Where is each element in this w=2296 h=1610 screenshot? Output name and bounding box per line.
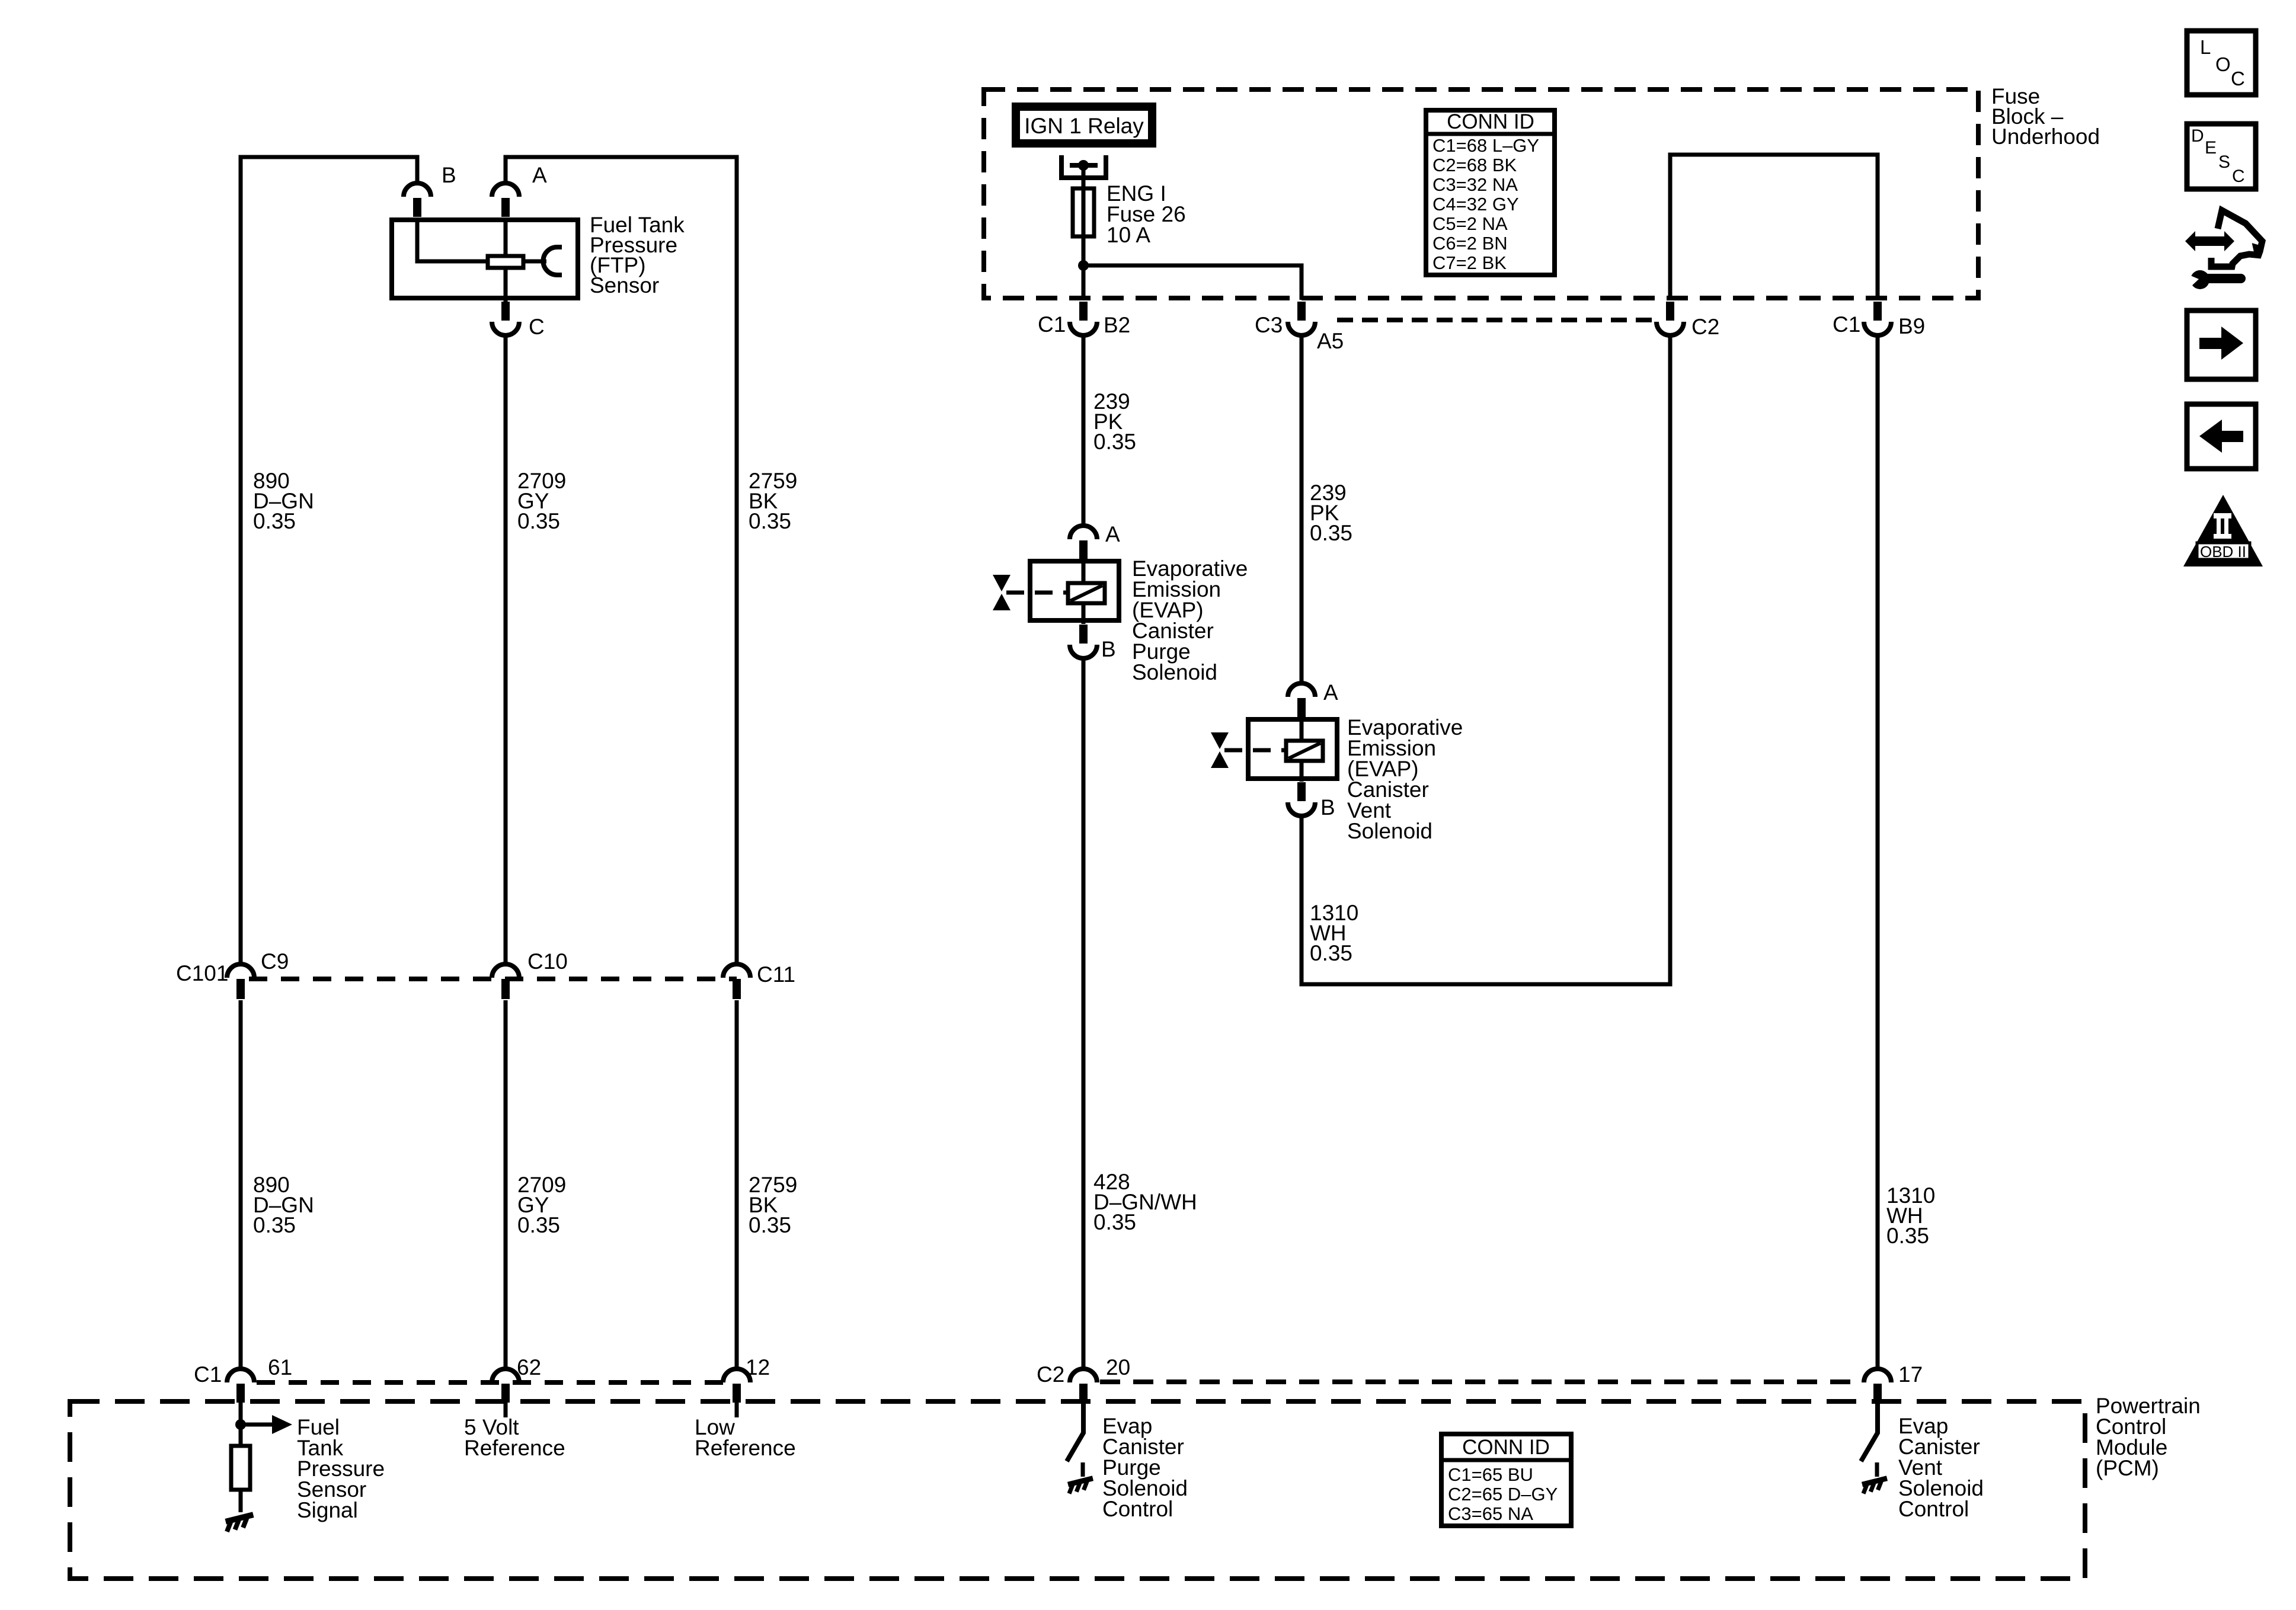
svg-text:(PCM): (PCM) (2096, 1456, 2159, 1480)
svg-text:Solenoid: Solenoid (1132, 660, 1217, 684)
svg-text:0.35: 0.35 (1310, 521, 1352, 545)
svg-text:S: S (2218, 152, 2230, 172)
ENG I Fuse 26 10 A fuse element (1073, 188, 1094, 236)
svg-text:B: B (442, 163, 456, 187)
vent solenoid pin B (1288, 782, 1315, 816)
svg-text:0.35: 0.35 (517, 509, 560, 533)
PCM terminal 20 (connector C2) (1070, 1369, 1097, 1403)
svg-text:61: 61 (268, 1355, 292, 1379)
ground stub (purge driver) (1081, 1462, 1085, 1477)
wire 1310 WH from vent solenoid pin B down across and up to fuse block C2 (1302, 335, 1670, 984)
vent solenoid coil wire (pin A side) (1300, 719, 1304, 741)
IGN 1 Relay box (1016, 107, 1152, 143)
connector C101 terminal C11 (723, 964, 750, 999)
svg-text:IGN 1 Relay: IGN 1 Relay (1024, 114, 1144, 138)
vent solenoid pin A (1288, 683, 1315, 718)
svg-text:C1=65 BU: C1=65 BU (1448, 1464, 1533, 1485)
purge solenoid valve symbol (993, 575, 1011, 591)
purge solenoid coil (1068, 583, 1105, 603)
svg-text:12: 12 (746, 1355, 770, 1379)
wire: 2759 BK from FTP pin A over and down to C101 C11 (506, 157, 737, 964)
component label: Evaporative Emission (EVAP) Canister Vent Solenoid (1347, 715, 1463, 843)
svg-text:10 A: 10 A (1107, 223, 1150, 247)
CONN ID table (fuse block) (1426, 110, 1555, 275)
wire: 2759 BK from C11 down to PCM terminal 12 (735, 1000, 739, 1369)
component label: Evaporative Emission (EVAP) Canister Purge Solenoid (1132, 556, 1248, 684)
vent solenoid coil wire (pin B side) (1300, 761, 1304, 782)
dashed jumper line from A5 row to C2 (1337, 318, 1655, 322)
svg-text:C3=32 NA: C3=32 NA (1432, 174, 1518, 195)
EVAP canister vent solenoid box (1248, 719, 1337, 779)
forward arrow icon box (2187, 311, 2256, 379)
FTP sensor internal wire from pin A down through resistor to pin C (504, 220, 508, 302)
Fuel Tank Pressure (FTP) Sensor box (392, 220, 578, 298)
signal arrow line (241, 1423, 272, 1427)
CONN ID table (PCM) (1441, 1434, 1571, 1526)
svg-text:0.35: 0.35 (1093, 1210, 1136, 1234)
svg-text:0.35: 0.35 (253, 1213, 296, 1237)
svg-text:C6=2 BN: C6=2 BN (1432, 233, 1508, 254)
fuse block terminal A5 (connector C3) (1288, 302, 1315, 335)
EVAP canister purge solenoid box (1030, 561, 1119, 620)
svg-text:C9: C9 (261, 949, 289, 974)
ground (PCM internal) (225, 1515, 256, 1532)
svg-text:0.35: 0.35 (1310, 941, 1352, 965)
PCM internal driver switch (purge) (1067, 1403, 1083, 1461)
svg-text:C4=32 GY: C4=32 GY (1432, 194, 1519, 215)
purge solenoid pin B (1070, 625, 1097, 658)
PCM terminal 62 (492, 1369, 519, 1403)
svg-text:0.35: 0.35 (517, 1213, 560, 1237)
wire label 2759 BK 0.35 (upper) (749, 469, 797, 533)
OBD II icon (2183, 495, 2263, 566)
svg-text:B2: B2 (1104, 313, 1130, 337)
wire: 2709 GY from FTP pin C down to C101 C10 (504, 335, 508, 964)
purge solenoid coil wire (pin B side) (1082, 603, 1086, 624)
relay contact bar (1070, 163, 1098, 168)
svg-text:C1: C1 (1833, 312, 1860, 337)
wire label 1310 WH 0.35 (right) (1886, 1183, 1935, 1248)
label: Evap Canister Vent Solenoid Control (1898, 1414, 1984, 1521)
svg-text:C2=68 BK: C2=68 BK (1432, 155, 1517, 175)
svg-text:CONN ID: CONN ID (1462, 1436, 1550, 1459)
wire label 890 D-GN 0.35 (upper) (253, 469, 314, 533)
svg-text:D: D (2191, 126, 2204, 146)
PCM terminal 12 (723, 1369, 750, 1403)
connector pin A of FTP sensor (492, 183, 519, 217)
wire: 890 D-GN from C9 down to PCM terminal 61 (239, 1000, 243, 1369)
FTP sensor internal wire from pin B to resistor (417, 220, 487, 261)
svg-text:0.35: 0.35 (1886, 1224, 1929, 1248)
svg-text:C5=2 NA: C5=2 NA (1432, 213, 1508, 234)
svg-text:62: 62 (517, 1355, 541, 1379)
svg-text:A: A (1105, 522, 1120, 546)
connector pin B of FTP sensor (404, 183, 431, 217)
PCM terminal 17 (1864, 1369, 1891, 1403)
fuse block terminal C2 (1657, 302, 1684, 335)
wire inside fuse block from terminal C2 up over to terminal B9 (1670, 155, 1878, 300)
valve actuating dashed link (vent) (1224, 748, 1286, 753)
svg-text:C2=65 D–GY: C2=65 D–GY (1448, 1484, 1558, 1505)
svg-text:C2: C2 (1037, 1362, 1064, 1387)
svg-text:Solenoid: Solenoid (1347, 819, 1432, 843)
svg-text:Control: Control (1102, 1497, 1173, 1521)
svg-text:C3=65 NA: C3=65 NA (1448, 1503, 1533, 1524)
wire: 2709 GY from C10 down to PCM terminal 62 (504, 1000, 508, 1369)
svg-text:0.35: 0.35 (253, 509, 296, 533)
svg-text:Signal: Signal (297, 1498, 358, 1522)
svg-text:C10: C10 (527, 949, 568, 974)
PCM internal driver switch (vent) (1861, 1403, 1878, 1461)
svg-text:C: C (2232, 167, 2245, 186)
label: Evap Canister Purge Solenoid Control (1102, 1414, 1188, 1521)
ground (purge driver) (1067, 1478, 1095, 1494)
svg-text:B: B (1101, 637, 1116, 661)
svg-text:C7=2 BK: C7=2 BK (1432, 252, 1507, 273)
Fuse Block - Underhood dashed box (984, 89, 1978, 298)
valve actuating dashed link (purge) (1006, 591, 1068, 595)
svg-text:C11: C11 (757, 962, 795, 987)
ground stub (vent driver) (1875, 1462, 1879, 1477)
PCM internal pull resistor (231, 1446, 250, 1490)
wire 428 D-GN/WH from purge solenoid pin B to PCM terminal 20 (1082, 658, 1086, 1369)
svg-text:C101: C101 (176, 961, 228, 985)
resistor element inside FTP sensor (488, 256, 523, 268)
wire label 1310 WH 0.35 (loop) (1310, 901, 1358, 965)
wire label 2759 BK 0.35 (lower) (749, 1173, 797, 1237)
wire: 890 D-GN from FTP sensor pin B up over and down to C101 C9 (241, 157, 417, 964)
label: Fuse Block - Underhood (1991, 84, 2100, 149)
svg-text:A: A (1323, 680, 1338, 705)
wire label 2709 GY 0.35 (lower) (517, 1173, 566, 1237)
wiper lead to half-moon contact (525, 260, 546, 264)
svg-text:C: C (529, 315, 545, 339)
svg-text:Reference: Reference (464, 1436, 565, 1460)
PCM connector dashed body line (right, terminals 20 and 17) (1100, 1379, 1860, 1384)
relay output junction dot (1078, 160, 1089, 171)
component label: Fuel Tank Pressure (FTP) Sensor (590, 213, 685, 297)
svg-text:C2: C2 (1691, 315, 1719, 339)
label: Powertrain Control Module (PCM) (2096, 1394, 2201, 1480)
svg-text:0.35: 0.35 (749, 1213, 791, 1237)
fuse block terminal B2 (connector C1) (1070, 302, 1097, 335)
inline connector C101 dashed body line (249, 977, 737, 981)
wire label 2709 GY 0.35 (upper) (517, 469, 566, 533)
svg-text:17: 17 (1898, 1362, 1923, 1387)
svg-text:OBD II: OBD II (2200, 543, 2246, 561)
label: Low Reference (695, 1415, 796, 1460)
connector C101 terminal C9 (227, 964, 254, 999)
svg-text:A: A (532, 163, 547, 187)
PCM internal stub for terminal 12 (735, 1403, 739, 1417)
vent solenoid valve symbol (1211, 732, 1229, 749)
connector C101 terminal C10 (492, 964, 519, 999)
junction dot (FTP signal) (235, 1419, 246, 1430)
svg-text:C1: C1 (1038, 312, 1066, 337)
PCM terminal 61 (227, 1369, 254, 1403)
label: Fuel Tank Pressure Sensor Signal (297, 1415, 385, 1522)
wire 239 PK from B2 down to purge solenoid pin A (1082, 335, 1086, 526)
relay contact bracket (1061, 155, 1106, 178)
connector pin C of FTP sensor (492, 302, 519, 335)
label: 5 Volt Reference (464, 1415, 565, 1460)
ground (vent driver) (1861, 1478, 1889, 1494)
svg-text:C3: C3 (1255, 313, 1283, 337)
vent solenoid coil (1286, 741, 1323, 761)
wire branch from junction to terminal A5 (1083, 265, 1302, 300)
back arrow icon box (2187, 404, 2256, 469)
half-moon wiper contact (C shape) (543, 247, 562, 275)
wire label 239 PK 0.35 (purge) (1093, 389, 1136, 454)
svg-text:C1: C1 (194, 1362, 222, 1387)
wire label 890 D-GN 0.35 (lower) (253, 1173, 314, 1237)
svg-text:Control: Control (1898, 1497, 1969, 1521)
PCM internal: FTP sensor signal wire with junction (239, 1403, 243, 1446)
svg-text:B9: B9 (1898, 314, 1925, 338)
svg-text:Reference: Reference (695, 1436, 796, 1460)
LOC icon box (2187, 31, 2256, 95)
label ENG I Fuse 26 10 A (1107, 181, 1186, 247)
signal arrowhead (272, 1415, 292, 1434)
svg-text:20: 20 (1106, 1355, 1130, 1379)
junction dot to EVAP vent branch (1078, 260, 1089, 271)
svg-text:B: B (1320, 795, 1335, 820)
svg-text:A5: A5 (1317, 329, 1344, 353)
PCM internal stub for terminal 62 (504, 1403, 508, 1417)
fuse block terminal B9 (connector C1) (1864, 302, 1891, 335)
svg-text:C1=68 L–GY: C1=68 L–GY (1432, 135, 1539, 156)
wire label 428 D-GN/WH 0.35 (1093, 1170, 1197, 1234)
svg-text:0.35: 0.35 (749, 509, 791, 533)
svg-text:Underhood: Underhood (1991, 124, 2100, 149)
DESC icon box (2187, 124, 2256, 189)
wire from relay through fuse down to terminal B2 (1082, 165, 1086, 300)
svg-text:Sensor: Sensor (590, 273, 659, 297)
wire 239 PK from A5 down to vent solenoid pin A (1300, 335, 1304, 683)
vehicle service icon (car outline, double arrow, wrench) (2185, 210, 2262, 289)
svg-text:CONN ID: CONN ID (1447, 110, 1534, 133)
svg-text:L: L (2200, 36, 2211, 58)
svg-text:O: O (2215, 53, 2231, 75)
PCM connector C1 dashed body line (left) (257, 1380, 737, 1385)
svg-text:0.35: 0.35 (1093, 430, 1136, 454)
Powertrain Control Module (PCM) dashed box (70, 1401, 2085, 1579)
wire 1310 WH from B9 down to PCM terminal 17 (1876, 335, 1880, 1369)
svg-text:C: C (2231, 68, 2245, 89)
svg-text:E: E (2205, 138, 2217, 158)
purge solenoid coil wire (pin A side) (1082, 561, 1086, 584)
purge solenoid pin A (1070, 526, 1097, 561)
wire from resistor to ground (239, 1490, 243, 1512)
wire label 239 PK 0.35 (vent) (1310, 481, 1352, 545)
